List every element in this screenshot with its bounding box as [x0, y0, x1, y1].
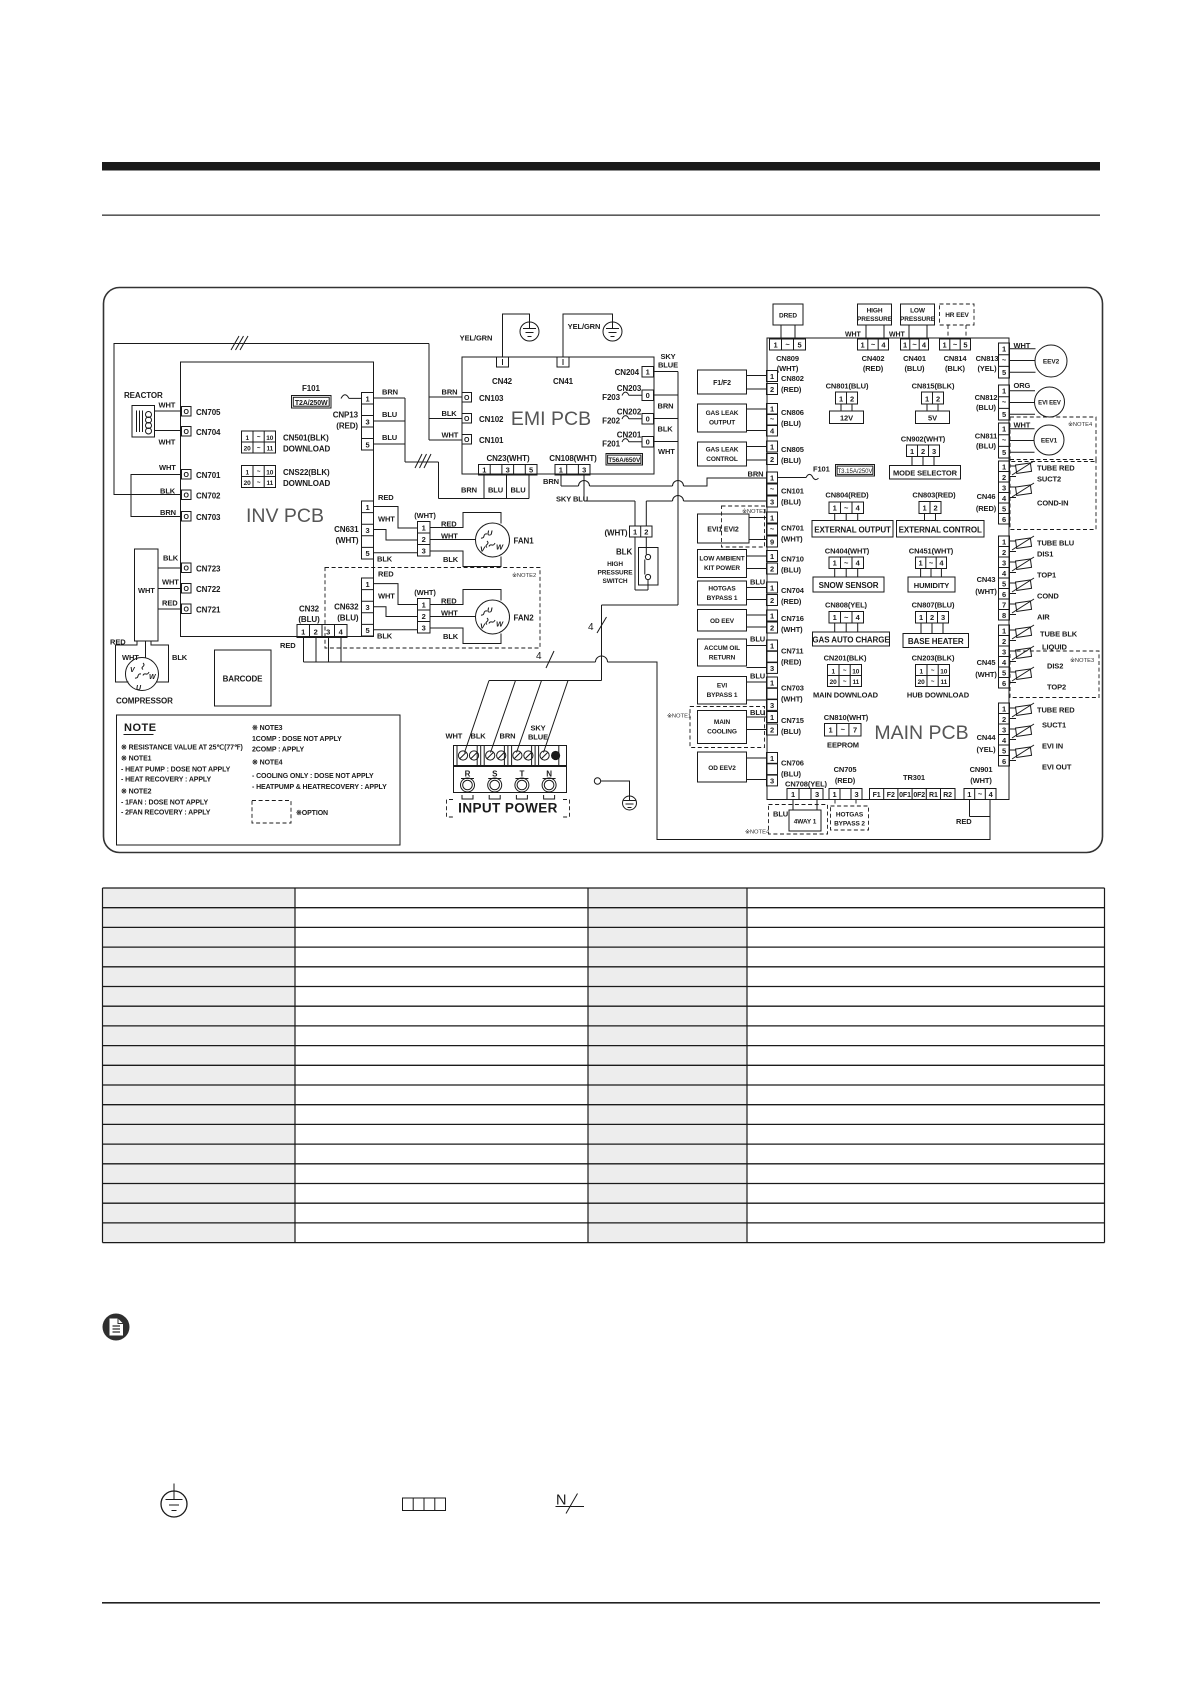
svg-text:1: 1	[365, 503, 369, 512]
svg-text:(RED): (RED)	[976, 504, 997, 513]
svg-text:BLK: BLK	[658, 425, 674, 434]
svg-text:~: ~	[843, 679, 847, 686]
svg-text:(WHT): (WHT)	[777, 364, 799, 373]
svg-text:RED: RED	[378, 570, 394, 579]
svg-text:CN804(RED): CN804(RED)	[825, 491, 869, 500]
svg-text:CN451(WHT): CN451(WHT)	[909, 547, 954, 556]
svg-text:LOW AMBIENT: LOW AMBIENT	[699, 556, 744, 563]
svg-text:CN702: CN702	[196, 492, 221, 501]
svg-text:OD EEV: OD EEV	[710, 618, 735, 625]
svg-text:20: 20	[244, 480, 252, 487]
svg-text:CN631: CN631	[334, 525, 359, 534]
svg-text:REACTOR: REACTOR	[124, 391, 163, 400]
EVI BYPASS 1 box	[698, 677, 767, 705]
svg-text:~: ~	[257, 445, 261, 452]
connector CN632	[334, 570, 395, 641]
svg-text:2: 2	[1002, 715, 1006, 724]
svg-text:CN705: CN705	[834, 765, 857, 774]
svg-text:INV PCB: INV PCB	[246, 505, 324, 527]
svg-text:5: 5	[1002, 410, 1006, 419]
svg-text:SUCT2: SUCT2	[1037, 475, 1061, 484]
svg-text:CN23(WHT): CN23(WHT)	[486, 454, 530, 463]
svg-text:F203: F203	[602, 393, 620, 402]
svg-text:11: 11	[266, 480, 273, 487]
svg-text:※NOTE4: ※NOTE4	[745, 829, 770, 836]
svg-text:1: 1	[773, 341, 777, 350]
svg-text:O: O	[184, 566, 190, 573]
svg-text:~: ~	[978, 790, 983, 799]
svg-text:~: ~	[929, 559, 934, 568]
svg-text:~: ~	[871, 340, 876, 349]
svg-text:1: 1	[919, 559, 923, 568]
connector CN801(BLU) + 12V	[826, 382, 869, 424]
svg-text:CN46: CN46	[977, 492, 996, 501]
svg-text:CN902(WHT): CN902(WHT)	[901, 435, 946, 444]
svg-text:1: 1	[943, 341, 947, 350]
connector CN701	[159, 463, 221, 480]
svg-text:(BLU): (BLU)	[905, 364, 926, 373]
svg-text:4: 4	[339, 628, 344, 637]
EVI1 EVI2 box with dashed NOTE3	[698, 506, 767, 547]
connector CN204	[615, 352, 679, 377]
svg-text:BLU: BLU	[750, 635, 765, 644]
svg-text:4: 4	[1002, 736, 1007, 745]
svg-text:F201: F201	[602, 440, 620, 449]
svg-text:(WHT): (WHT)	[781, 695, 803, 704]
svg-text:BLU: BLU	[750, 708, 765, 717]
connector CN41	[553, 357, 574, 386]
connector CN814(BLK)	[940, 339, 971, 373]
svg-text:※NOTE2: ※NOTE2	[512, 572, 536, 579]
diagram outer frame	[104, 288, 1103, 853]
svg-text:MAIN PCB: MAIN PCB	[874, 722, 968, 744]
svg-text:O: O	[184, 493, 190, 500]
connector CN702	[160, 487, 221, 501]
OD EEV box	[698, 610, 767, 632]
MAIN PCB board outline	[767, 338, 1009, 800]
svg-text:WHT: WHT	[159, 438, 176, 447]
svg-text:1: 1	[832, 790, 836, 799]
svg-text:5: 5	[1002, 505, 1006, 514]
svg-text:O: O	[464, 416, 470, 423]
svg-text:CN203: CN203	[617, 384, 642, 393]
bottom rule	[102, 1602, 1100, 1604]
svg-text:~: ~	[844, 504, 849, 513]
svg-text:CN810(WHT): CN810(WHT)	[824, 713, 869, 722]
svg-text:CN201(BLK): CN201(BLK)	[824, 654, 867, 663]
svg-text:1: 1	[833, 504, 837, 513]
empty spec table	[103, 888, 1105, 1243]
svg-text:(RED): (RED)	[336, 422, 358, 431]
HIGH PRESSURE box	[845, 304, 893, 339]
svg-text:(WHT): (WHT)	[975, 587, 997, 596]
svg-text:1: 1	[770, 642, 774, 651]
high pressure switch	[598, 526, 658, 590]
svg-text:V: V	[480, 545, 486, 554]
connector CN701(WHT)	[767, 512, 804, 547]
svg-text:6: 6	[1002, 757, 1006, 766]
svg-text:1: 1	[633, 528, 637, 537]
connector CN708(YEL) + 4WAY 1	[745, 780, 828, 836]
top rule bar	[102, 162, 1100, 216]
svg-text:CN202: CN202	[617, 408, 642, 417]
svg-text:1: 1	[770, 754, 774, 763]
svg-text:3: 3	[506, 466, 510, 475]
svg-text:BLK: BLK	[616, 548, 632, 557]
svg-text:CN721: CN721	[196, 606, 221, 615]
svg-text:SNOW SENSOR: SNOW SENSOR	[819, 581, 879, 590]
svg-text:2: 2	[770, 596, 774, 605]
svg-text:1: 1	[770, 514, 774, 523]
connector CN812(BLU) + EVI EEV	[975, 381, 1065, 420]
svg-text:HIGH: HIGH	[867, 308, 883, 315]
connector CN804(RED) + EXTERNAL OUTPUT	[812, 491, 893, 538]
connector CN803(RED) + EXTERNAL CONTROL	[897, 491, 985, 538]
svg-text:※ RESISTANCE VALUE AT 25℃(77℉): ※ RESISTANCE VALUE AT 25℃(77℉)	[121, 744, 243, 752]
svg-text:(WHT): (WHT)	[414, 588, 436, 597]
svg-text:5V: 5V	[928, 414, 937, 423]
svg-text:BRN: BRN	[543, 477, 559, 486]
svg-text:※ NOTE2: ※ NOTE2	[121, 788, 152, 796]
svg-text:2: 2	[930, 613, 934, 622]
svg-text:10: 10	[266, 435, 274, 442]
svg-text:2: 2	[1002, 473, 1006, 482]
svg-text:BRN: BRN	[382, 388, 398, 397]
svg-text:3: 3	[365, 603, 369, 612]
connector CN23(WHT)	[479, 454, 538, 475]
svg-text:F2: F2	[887, 792, 895, 799]
svg-text:BRN: BRN	[658, 402, 674, 411]
svg-text:TOP1: TOP1	[1037, 571, 1056, 580]
svg-text:4: 4	[856, 613, 861, 622]
connector CNP13	[333, 393, 374, 451]
svg-text:BLK: BLK	[377, 555, 393, 564]
svg-text:3: 3	[365, 526, 369, 535]
wire: input power bundle to EMI	[489, 372, 678, 681]
svg-text:O: O	[184, 429, 190, 436]
svg-text:TUBE RED: TUBE RED	[1037, 706, 1075, 715]
svg-text:KIT POWER: KIT POWER	[704, 565, 740, 572]
svg-text:DOWNLOAD: DOWNLOAD	[283, 445, 331, 454]
ACCUM OIL RETURN box	[698, 639, 767, 668]
svg-text:BARCODE: BARCODE	[223, 675, 264, 684]
earth ground 2	[568, 322, 622, 341]
svg-text:HIGH: HIGH	[607, 561, 623, 568]
svg-text:11: 11	[852, 679, 859, 686]
svg-text:BASE HEATER: BASE HEATER	[908, 637, 964, 646]
svg-text:0: 0	[646, 391, 650, 400]
barcode box	[215, 650, 272, 706]
svg-text:(BLU): (BLU)	[781, 727, 802, 736]
svg-text:GAS LEAK: GAS LEAK	[706, 410, 739, 417]
svg-text:3: 3	[1002, 648, 1006, 657]
connector CN101	[442, 431, 505, 446]
GAS LEAK OUTPUT box	[698, 404, 767, 432]
svg-text:EVI1 EVI2: EVI1 EVI2	[707, 527, 739, 534]
connector CN703(WHT)	[750, 677, 804, 717]
svg-text:BLU: BLU	[773, 810, 788, 819]
svg-text:O: O	[184, 472, 190, 479]
svg-text:SKY BLU: SKY BLU	[556, 495, 588, 504]
svg-text:RED: RED	[378, 493, 394, 502]
svg-text:TR301: TR301	[903, 773, 925, 782]
svg-text:4: 4	[856, 504, 861, 513]
svg-text:4: 4	[1002, 658, 1007, 667]
svg-text:CN101: CN101	[781, 487, 804, 496]
svg-text:6: 6	[1002, 515, 1006, 524]
svg-text:1: 1	[833, 613, 837, 622]
svg-text:(WHT): (WHT)	[970, 776, 992, 785]
wires fan1 connector to motor	[430, 513, 501, 567]
download header CN501	[242, 431, 331, 454]
connector CN722	[158, 578, 221, 595]
svg-text:BRN: BRN	[748, 470, 764, 479]
svg-text:MODE SELECTOR: MODE SELECTOR	[893, 469, 958, 478]
svg-text:N: N	[546, 770, 552, 779]
svg-text:WHT: WHT	[446, 732, 463, 741]
svg-text:(BLU): (BLU)	[781, 770, 802, 779]
svg-text:WHT: WHT	[1014, 421, 1031, 430]
svg-text:3: 3	[932, 447, 936, 456]
svg-text:5: 5	[1002, 448, 1006, 457]
connector CN809(WHT)	[770, 339, 806, 373]
fan1 connector (WHT)	[414, 511, 459, 564]
svg-text:2: 2	[770, 726, 774, 735]
svg-text:WHT: WHT	[159, 463, 176, 472]
HR EEV dashed box	[940, 304, 975, 339]
svg-text:EMI PCB: EMI PCB	[511, 408, 591, 430]
connector CN404(WHT) + SNOW SENSOR	[813, 547, 884, 593]
svg-text:(WHT): (WHT)	[975, 670, 997, 679]
svg-text:20: 20	[918, 679, 926, 686]
svg-text:2: 2	[422, 535, 426, 544]
svg-text:3: 3	[326, 628, 330, 637]
svg-text:CN801(BLU): CN801(BLU)	[826, 382, 869, 391]
download header CN203(BLK) + HUB DOWNLOAD	[907, 654, 970, 700]
svg-text:BLK: BLK	[443, 555, 459, 564]
GAS LEAK CONTROL box	[698, 442, 767, 466]
connector CN101(BLU) with fuse F101	[748, 465, 875, 508]
compressor motor	[110, 638, 188, 706]
svg-text:DIS2: DIS2	[1047, 662, 1063, 671]
svg-text:1: 1	[365, 395, 369, 404]
wires CNP13 to EMI CN23 bundle	[374, 388, 530, 499]
svg-text:10: 10	[852, 669, 860, 676]
fuse F202 / connector CN202	[602, 408, 678, 434]
svg-text:1: 1	[833, 559, 837, 568]
connector CN43(WHT) thermistors	[975, 536, 1074, 622]
svg-text:CN805: CN805	[781, 445, 804, 454]
svg-text:CN716: CN716	[781, 614, 804, 623]
connector CN44(YEL) thermistors	[976, 703, 1075, 772]
svg-text:(WHT): (WHT)	[604, 529, 627, 538]
svg-text:3: 3	[854, 790, 858, 799]
svg-text:3: 3	[770, 777, 774, 786]
svg-text:CN803(RED): CN803(RED)	[912, 491, 956, 500]
svg-text:CN710: CN710	[781, 555, 804, 564]
svg-text:GAS LEAK: GAS LEAK	[706, 447, 739, 454]
svg-text:CN901: CN901	[970, 765, 993, 774]
svg-text:RETURN: RETURN	[709, 655, 736, 662]
svg-text:5: 5	[1002, 669, 1006, 678]
svg-text:0F2: 0F2	[913, 792, 925, 799]
svg-text:- HEAT PUMP : DOSE NOT APPLY: - HEAT PUMP : DOSE NOT APPLY	[121, 767, 231, 774]
svg-text:HR EEV: HR EEV	[945, 312, 969, 319]
svg-text:3: 3	[815, 790, 819, 799]
svg-text:(RED): (RED)	[781, 385, 802, 394]
svg-text:CN41: CN41	[553, 377, 574, 386]
svg-text:(BLK): (BLK)	[945, 364, 966, 373]
svg-text:CN632: CN632	[334, 603, 359, 612]
svg-text:3: 3	[770, 498, 774, 507]
svg-text:CN32: CN32	[299, 605, 320, 614]
svg-text:T: T	[520, 770, 525, 779]
svg-text:~: ~	[1002, 436, 1007, 445]
F1/F2 box	[698, 370, 767, 394]
svg-text:RED: RED	[280, 641, 296, 650]
svg-text:~: ~	[770, 525, 775, 534]
svg-text:INPUT POWER: INPUT POWER	[458, 801, 558, 816]
wire: mains loop from top-left to CN702	[114, 344, 429, 495]
svg-text:CN103: CN103	[479, 394, 504, 403]
svg-text:6: 6	[1002, 679, 1006, 688]
connector CN802(RED)	[767, 371, 804, 395]
svg-text:WHT: WHT	[658, 447, 675, 456]
svg-text:0: 0	[646, 438, 650, 447]
wire loop CN701-CN703	[131, 475, 182, 517]
svg-text:OUTPUT: OUTPUT	[709, 420, 735, 427]
svg-text:S: S	[492, 770, 498, 779]
svg-text:CN43: CN43	[977, 575, 996, 584]
svg-text:(BLU): (BLU)	[298, 615, 320, 624]
svg-text:BLUE: BLUE	[528, 733, 548, 742]
svg-text:5: 5	[365, 626, 369, 635]
svg-text:FAN2: FAN2	[514, 614, 535, 623]
svg-text:BRN: BRN	[500, 732, 516, 741]
svg-text:~: ~	[257, 469, 261, 476]
svg-text:R1: R1	[929, 792, 938, 799]
svg-text:U: U	[487, 606, 493, 615]
svg-text:BLK: BLK	[377, 632, 393, 641]
svg-text:PRESSURE: PRESSURE	[857, 316, 893, 323]
svg-text:~: ~	[785, 340, 790, 349]
svg-text:1: 1	[1002, 425, 1006, 434]
svg-text:※ NOTE3: ※ NOTE3	[252, 724, 283, 732]
svg-text:※NOTE4: ※NOTE4	[1068, 421, 1093, 428]
svg-text:TOP2: TOP2	[1047, 683, 1066, 692]
svg-text:(RED): (RED)	[781, 597, 802, 606]
svg-text:F101: F101	[302, 384, 320, 393]
note box	[117, 715, 401, 845]
svg-text:O: O	[184, 586, 190, 593]
svg-text:SWITCH: SWITCH	[602, 578, 627, 585]
svg-text:CN402: CN402	[862, 354, 885, 363]
input power terminal block	[446, 724, 567, 800]
svg-text:BYPASS 1: BYPASS 1	[707, 692, 738, 699]
svg-text:(WHT): (WHT)	[781, 535, 803, 544]
svg-text:CN812: CN812	[975, 393, 998, 402]
svg-text:BLU: BLU	[382, 433, 397, 442]
earth ground symbol legend	[161, 1484, 187, 1518]
svg-text:F1/F2: F1/F2	[713, 380, 731, 387]
svg-text:~: ~	[931, 668, 935, 675]
svg-text:NOTE: NOTE	[124, 722, 157, 734]
svg-text:4: 4	[856, 559, 861, 568]
svg-text:BLK: BLK	[172, 653, 188, 662]
fuse rating T56A/650V	[606, 454, 643, 466]
download header CN522	[242, 466, 331, 489]
svg-text:HUMIDITY: HUMIDITY	[914, 581, 950, 590]
svg-text:5: 5	[1002, 368, 1006, 377]
svg-text:CN701: CN701	[781, 524, 804, 533]
svg-text:CN102: CN102	[479, 415, 504, 424]
EMI PCB board outline	[462, 357, 654, 474]
input power label	[447, 800, 570, 818]
svg-text:1: 1	[770, 584, 774, 593]
svg-text:CN806: CN806	[781, 408, 804, 417]
svg-text:CN811: CN811	[975, 432, 997, 441]
svg-text:AIR: AIR	[1037, 613, 1050, 622]
svg-text:2: 2	[921, 447, 925, 456]
connector CN810(WHT) + EEPROM	[824, 713, 869, 750]
svg-text:O: O	[184, 607, 190, 614]
wires fan2 connector to motor	[430, 590, 501, 644]
fan2 connector (WHT)	[414, 588, 459, 641]
svg-text:2: 2	[422, 612, 426, 621]
svg-text:ACCUM OIL: ACCUM OIL	[704, 645, 740, 652]
connector CN705	[182, 407, 222, 418]
svg-text:CN45: CN45	[977, 658, 996, 667]
wire SKY BLU: CN108.3 to switch	[556, 475, 635, 526]
svg-text:CN703: CN703	[196, 513, 221, 522]
svg-text:(WHT): (WHT)	[335, 536, 358, 545]
svg-text:(RED): (RED)	[863, 364, 884, 373]
svg-text:CN809: CN809	[776, 354, 799, 363]
svg-text:CNS22(BLK): CNS22(BLK)	[283, 468, 330, 477]
svg-text:3: 3	[770, 664, 774, 673]
transformer TR301 fuse row	[870, 773, 956, 800]
svg-text:1: 1	[919, 613, 923, 622]
svg-text:BLU: BLU	[510, 486, 525, 495]
wires CN631 to fan1 connector	[374, 507, 418, 553]
svg-text:EVI: EVI	[717, 683, 727, 690]
connector CN451(WHT) + HUMIDITY	[908, 547, 955, 593]
svg-text:1: 1	[839, 395, 843, 404]
connector CN402(RED)	[858, 339, 889, 373]
svg-text:O: O	[184, 514, 190, 521]
svg-text:- 1FAN : DOSE NOT APPLY: - 1FAN : DOSE NOT APPLY	[121, 800, 208, 807]
svg-text:4: 4	[939, 559, 944, 568]
wire: CN32 bundle to CN901 (compressor power)	[304, 638, 991, 840]
svg-text:- HEAT RECOVERY : APPLY: - HEAT RECOVERY : APPLY	[121, 777, 211, 784]
svg-text:ORG: ORG	[1014, 381, 1031, 390]
svg-text:1: 1	[559, 466, 563, 475]
svg-text:BLU: BLU	[750, 672, 765, 681]
svg-text:- 2FAN RECOVERY : APPLY: - 2FAN RECOVERY : APPLY	[121, 810, 211, 817]
svg-text:LOW: LOW	[910, 308, 926, 315]
svg-text:BLU: BLU	[488, 486, 503, 495]
svg-text:EXTERNAL OUTPUT: EXTERNAL OUTPUT	[814, 526, 891, 535]
svg-text:5: 5	[365, 549, 369, 558]
wire BRN: CN108.1 to MAIN CN101.1	[543, 475, 767, 486]
svg-text:※ NOTE4: ※ NOTE4	[252, 759, 283, 767]
svg-text:MAIN DOWNLOAD: MAIN DOWNLOAD	[813, 691, 879, 700]
svg-text:DRED: DRED	[779, 313, 797, 320]
svg-text:(RED): (RED)	[835, 776, 856, 785]
svg-text:T3.15A/250V: T3.15A/250V	[837, 469, 872, 475]
svg-text:3: 3	[941, 613, 945, 622]
wire slash marks (3-wire bundle)	[231, 336, 248, 350]
